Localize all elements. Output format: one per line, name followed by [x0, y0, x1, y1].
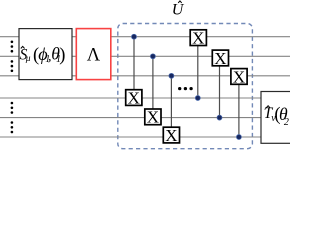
svg-text:Λ: Λ: [87, 46, 101, 66]
svg-text:): ): [59, 46, 65, 66]
svg-text:X: X: [214, 49, 226, 68]
svg-text:2: 2: [284, 117, 289, 128]
svg-text:μ: μ: [25, 54, 31, 64]
svg-text:X: X: [165, 126, 177, 145]
svg-text:X: X: [128, 88, 140, 107]
svg-text:X: X: [233, 67, 245, 86]
svg-text:X: X: [192, 28, 204, 47]
svg-text:U: U: [172, 2, 185, 19]
svg-text:X: X: [147, 108, 159, 127]
